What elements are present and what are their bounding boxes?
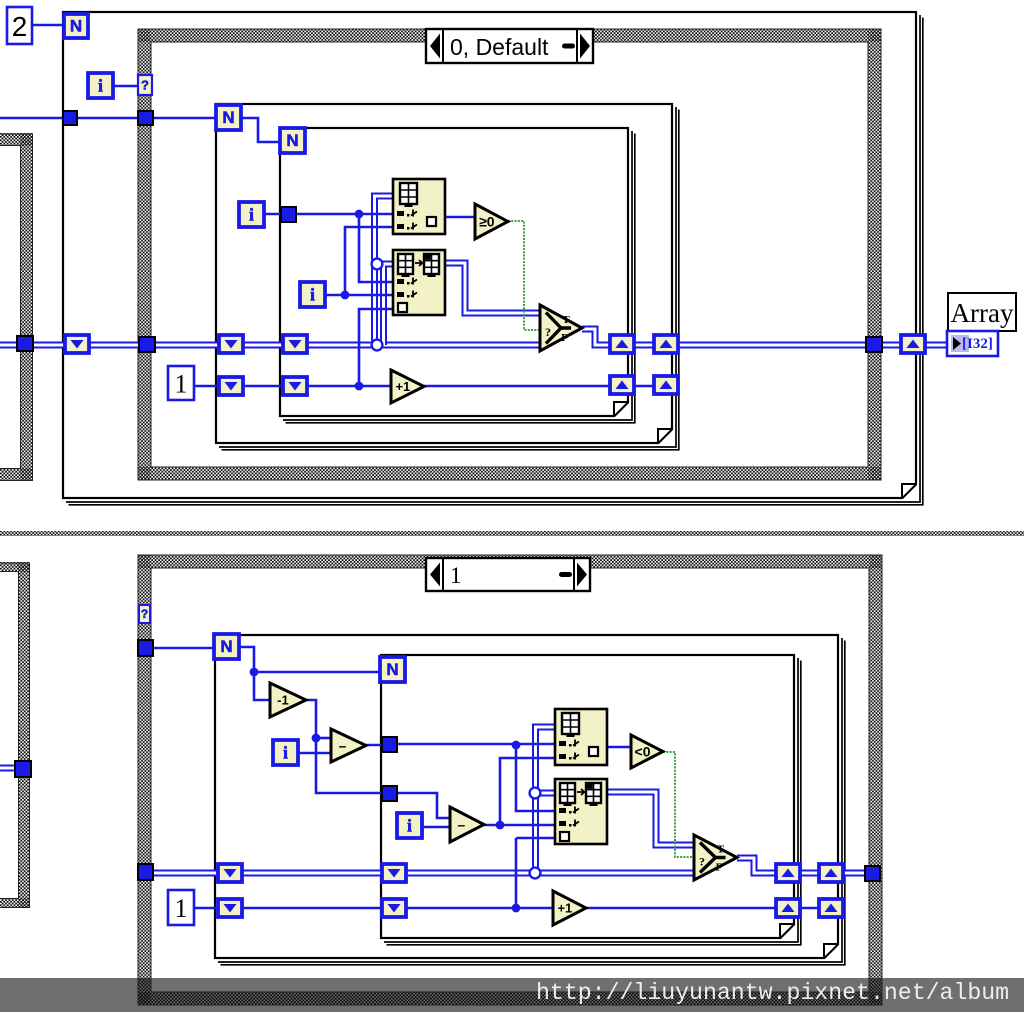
svg-text:<0: <0 xyxy=(635,744,651,760)
svg-text:N: N xyxy=(222,108,234,127)
svg-text:i: i xyxy=(283,743,288,763)
svg-text:2: 2 xyxy=(12,11,28,42)
svg-text:–: – xyxy=(339,738,347,754)
svg-text:≥0: ≥0 xyxy=(479,214,495,230)
svg-text:?: ? xyxy=(699,855,705,869)
svg-text:i: i xyxy=(249,205,254,225)
svg-text:N: N xyxy=(220,637,232,656)
svg-text:[I32]: [I32] xyxy=(962,336,993,352)
svg-text:T: T xyxy=(562,314,570,326)
svg-text:Array: Array xyxy=(951,298,1014,328)
svg-text:N: N xyxy=(386,660,398,679)
svg-text:http://liuyunantw.pixnet.net/a: http://liuyunantw.pixnet.net/album xyxy=(536,980,1009,1006)
svg-text:F: F xyxy=(561,332,568,344)
svg-text:-1: -1 xyxy=(277,693,289,708)
svg-text:i: i xyxy=(407,816,412,836)
svg-text:N: N xyxy=(70,17,82,36)
svg-text:1: 1 xyxy=(175,894,188,923)
svg-text:N: N xyxy=(286,131,298,150)
svg-text:F: F xyxy=(716,862,723,874)
svg-text:0, Default: 0, Default xyxy=(450,34,549,60)
svg-text:–: – xyxy=(457,817,465,833)
svg-text:?: ? xyxy=(141,78,149,93)
svg-text:i: i xyxy=(310,285,315,305)
svg-text:?: ? xyxy=(545,325,551,339)
svg-text:+1: +1 xyxy=(557,901,572,916)
svg-text:+1: +1 xyxy=(395,379,410,394)
svg-text:?: ? xyxy=(141,607,148,621)
svg-text:1: 1 xyxy=(450,563,462,588)
svg-text:i: i xyxy=(98,76,103,96)
svg-text:T: T xyxy=(717,844,725,856)
svg-text:1: 1 xyxy=(175,370,188,399)
